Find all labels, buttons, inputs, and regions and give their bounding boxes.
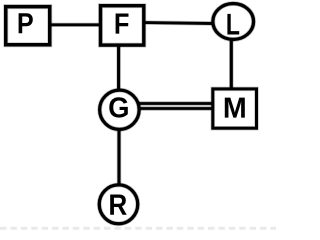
node G bbox=[100, 90, 139, 129]
node P bbox=[6, 7, 50, 45]
wire P-F bbox=[48, 23, 102, 27]
node F bbox=[101, 6, 144, 45]
wire G-M double line bottom bbox=[138, 106, 214, 111]
wire G-R bbox=[117, 129, 122, 186]
node L bbox=[213, 4, 254, 40]
wire G-M double line top bbox=[138, 101, 214, 106]
bottom dashed border bbox=[0, 227, 276, 230]
wire F-L bbox=[144, 20, 214, 25]
wire L-M bbox=[229, 39, 234, 90]
node R bbox=[99, 185, 138, 224]
node M bbox=[213, 89, 257, 128]
wire F-G bbox=[116, 45, 121, 91]
